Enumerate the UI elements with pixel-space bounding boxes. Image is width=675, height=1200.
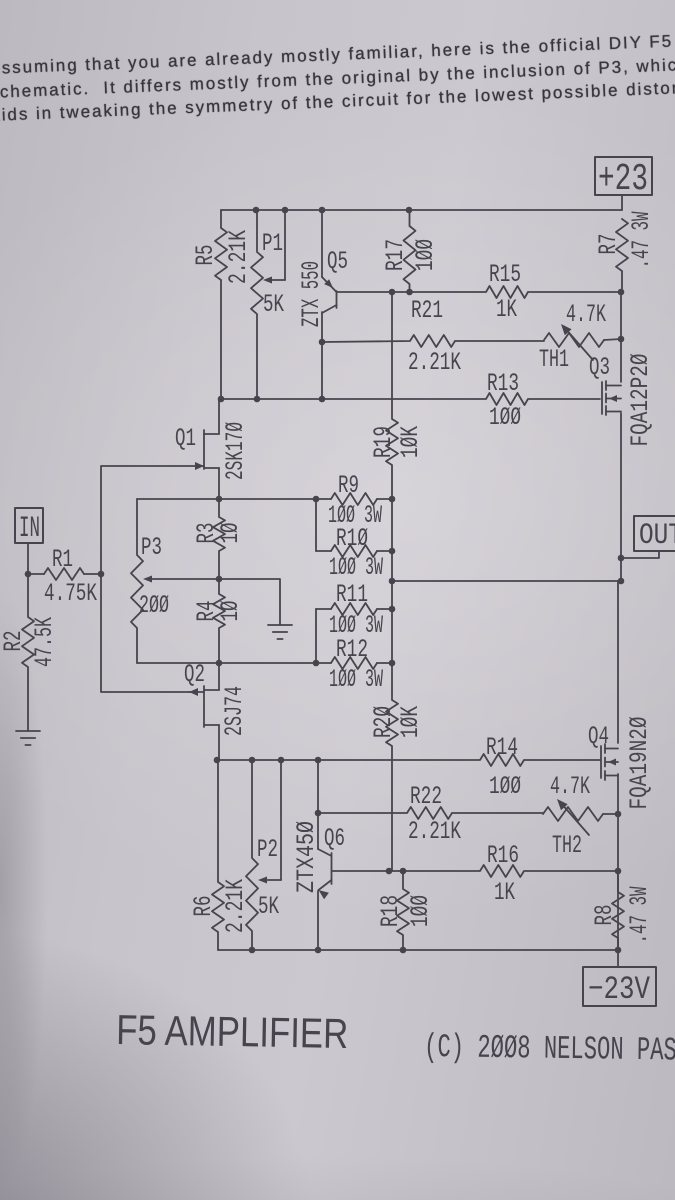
ground symbol input	[16, 730, 40, 732]
svg-text:4.75K: 4.75K	[44, 579, 97, 608]
svg-text:R2: R2	[0, 631, 28, 652]
svg-text:ZTX45Ø: ZTX45Ø	[292, 821, 321, 893]
junction dot R3/R4 node	[216, 576, 223, 583]
thermistor TH1 with R21	[408, 296, 621, 377]
svg-text:R5: R5	[191, 245, 220, 266]
wire mid column R9-R12 junctions	[391, 499, 393, 663]
input node IN box	[15, 508, 43, 546]
svg-text:1ØØ: 1ØØ	[411, 239, 440, 271]
junction dot TH1 to Q3 source column	[618, 336, 625, 343]
svg-text:P2: P2	[257, 835, 278, 864]
svg-text:5K: 5K	[258, 892, 279, 921]
svg-text:R18: R18	[376, 895, 405, 927]
svg-text:F5 AMPLIFIER: F5 AMPLIFIER	[116, 1006, 349, 1057]
svg-text:OUT: OUT	[639, 519, 675, 553]
wire top supply rail	[221, 209, 622, 211]
resistor R9	[328, 471, 392, 530]
svg-text:−23V: −23V	[588, 971, 651, 1008]
resistor R18	[376, 871, 435, 950]
wire R22 rail from Q6 collector	[318, 807, 543, 819]
svg-text:ZTX 550: ZTX 550	[297, 261, 326, 327]
svg-text:1ØØ 3W: 1ØØ 3W	[329, 553, 383, 582]
junction dot TH2 to Q4 column	[615, 811, 622, 818]
svg-text:Q6: Q6	[324, 824, 345, 853]
junction dot R10 right	[389, 548, 396, 555]
wire R21 rail from Q5 collector	[322, 335, 544, 347]
svg-text:Q1: Q1	[175, 424, 196, 453]
wire Q1 gate from input node	[101, 466, 196, 574]
wire R13 rail / front end top	[221, 393, 600, 405]
resistor R11	[316, 580, 392, 640]
svg-text:47.5K: 47.5K	[30, 617, 59, 667]
wire negative supply rail	[218, 949, 618, 951]
resistor R2	[0, 574, 59, 731]
junction dot R11 right	[389, 606, 396, 613]
svg-text:P1: P1	[262, 229, 283, 258]
svg-text:R9: R9	[338, 471, 359, 500]
svg-text:.47 3W: .47 3W	[625, 887, 654, 944]
svg-text:2.21K: 2.21K	[224, 230, 253, 284]
wire R14 rail from Q2 source	[217, 754, 600, 766]
wire R11/R12 left link	[315, 609, 317, 663]
svg-text:R1Ø: R1Ø	[336, 524, 368, 553]
wire output rail	[392, 580, 621, 582]
svg-text:1ØØ: 1ØØ	[406, 895, 435, 927]
wire R12 rail from Q2 drain	[137, 662, 331, 664]
wire IN box to R1	[27, 543, 29, 574]
wire +23 box to top rail	[621, 195, 623, 210]
svg-text:R13: R13	[487, 369, 519, 398]
wire Q2 gate from input node	[101, 574, 189, 692]
svg-text:(C) 2ØØ8 NELSON PASS: (C) 2ØØ8 NELSON PASS	[424, 1029, 675, 1070]
wire Q4 source column	[617, 774, 619, 952]
svg-text:IN: IN	[19, 512, 40, 546]
resistor R7	[594, 212, 656, 293]
junction dots on R12 rail	[216, 660, 223, 667]
svg-text:1Ø: 1Ø	[216, 601, 245, 622]
junction dot output rail right	[618, 578, 625, 585]
wire R9/R10 left link	[315, 499, 317, 551]
wire OUT box stub	[621, 551, 659, 558]
svg-text:R17: R17	[381, 239, 410, 271]
svg-text:1ØK: 1ØK	[396, 706, 425, 738]
svg-text:R2Ø: R2Ø	[369, 706, 398, 738]
svg-text:TH1: TH1	[539, 345, 569, 374]
resistor R5	[191, 210, 253, 399]
junction dots on negative rail	[249, 947, 256, 954]
svg-text:4.7K: 4.7K	[566, 300, 606, 329]
svg-text:1ØK: 1ØK	[396, 426, 425, 458]
svg-text:2.21K: 2.21K	[408, 348, 461, 377]
svg-text:P3: P3	[141, 533, 162, 562]
svg-text:R19: R19	[369, 426, 398, 458]
potentiometer P2	[246, 760, 281, 950]
mosfet Q3 FQA12P20	[589, 353, 655, 447]
junction dots on R13 rail	[218, 396, 225, 403]
svg-text:1ØØ: 1ØØ	[489, 772, 521, 801]
wire Q3 source column	[620, 292, 622, 382]
mosfet Q4 FQA19N20	[588, 717, 654, 810]
resistor R17	[381, 210, 440, 292]
svg-text:TH2: TH2	[552, 831, 582, 860]
paragraph text at top	[0, 26, 675, 127]
wire P3 wiper to ground	[219, 579, 280, 625]
svg-text:Q5: Q5	[327, 247, 348, 276]
svg-text:+23: +23	[598, 158, 648, 201]
svg-text:R16: R16	[487, 841, 519, 870]
output node OUT box	[634, 516, 675, 553]
power node +23 box	[595, 157, 652, 201]
resistor R8	[590, 871, 654, 967]
svg-text:R15: R15	[489, 260, 521, 289]
svg-text:FQA19N2Ø: FQA19N2Ø	[625, 717, 654, 810]
svg-text:2.21K: 2.21K	[408, 817, 461, 846]
potentiometer P1	[251, 210, 285, 399]
resistor R20	[369, 663, 425, 871]
wire R9 rail from Q1 source	[137, 498, 331, 500]
svg-text:1ØØ 3W: 1ØØ 3W	[329, 665, 383, 694]
junction dot R1/R2 node	[25, 571, 32, 578]
svg-text:R12: R12	[336, 635, 368, 664]
resistor R12	[329, 635, 392, 694]
potentiometer P3	[131, 499, 219, 663]
junction dot OUT stub	[618, 555, 625, 562]
junction dots on R9 rail	[216, 496, 223, 503]
svg-text:.47 3W: .47 3W	[627, 212, 656, 269]
svg-text:R22: R22	[410, 782, 442, 811]
svg-text:R14: R14	[486, 733, 518, 762]
resistor R1	[28, 545, 101, 608]
svg-text:1ØØ: 1ØØ	[489, 403, 521, 432]
svg-text:R1: R1	[52, 545, 73, 574]
svg-text:2ØØ: 2ØØ	[139, 591, 169, 620]
junction dot R22 rail left	[315, 810, 322, 817]
svg-text:1K: 1K	[494, 878, 515, 907]
thermistor TH2 with R22	[408, 772, 618, 860]
ground symbol mid	[268, 624, 292, 626]
wire Q5 base rail with R15	[337, 286, 621, 298]
junction dots on R16 rail	[386, 868, 393, 875]
resistor R19	[369, 292, 425, 499]
jfet Q2 2SJ74	[184, 660, 249, 760]
transistor Q5 ZTX550 (PNP)	[297, 210, 348, 399]
wire Q4 drain column	[617, 581, 619, 743]
svg-text:2SJ74: 2SJ74	[220, 686, 249, 736]
resistor R3	[192, 499, 245, 579]
power node -23V box	[583, 967, 656, 1008]
resistor R4	[192, 579, 245, 663]
svg-text:R8: R8	[590, 905, 619, 926]
svg-text:Q4: Q4	[588, 722, 609, 751]
resistor R10	[316, 524, 392, 582]
junction dot Q5 collector / R21 rail	[319, 339, 326, 346]
wire Q3 drain to OUT node	[620, 413, 622, 581]
junction dots on R15 rail	[389, 289, 396, 296]
junction dot output rail left	[389, 578, 396, 585]
resistor R6	[189, 760, 250, 950]
junction dots on top rail	[253, 207, 260, 214]
svg-text:Q3: Q3	[589, 353, 610, 382]
svg-text:1K: 1K	[496, 295, 517, 324]
svg-text:5K: 5K	[263, 290, 284, 319]
svg-text:2.21K: 2.21K	[221, 879, 250, 933]
wire Q6 base rail with R16	[332, 865, 618, 877]
svg-text:R11: R11	[336, 580, 368, 609]
svg-text:FQA12P2Ø: FQA12P2Ø	[626, 354, 655, 447]
svg-text:R7: R7	[594, 234, 623, 255]
transistor Q6 ZTX450 (NPN)	[292, 760, 345, 950]
svg-text:1Ø: 1Ø	[216, 523, 245, 544]
jfet Q1 2SK170	[175, 399, 250, 499]
svg-text:2SK17Ø: 2SK17Ø	[221, 422, 250, 480]
svg-text:Q2: Q2	[184, 660, 205, 689]
svg-text:R21: R21	[411, 296, 443, 325]
svg-text:R6: R6	[189, 896, 218, 917]
junction dot input node	[98, 571, 105, 578]
svg-text:4.7K: 4.7K	[550, 772, 590, 801]
junction dots on R14 rail	[214, 757, 221, 764]
